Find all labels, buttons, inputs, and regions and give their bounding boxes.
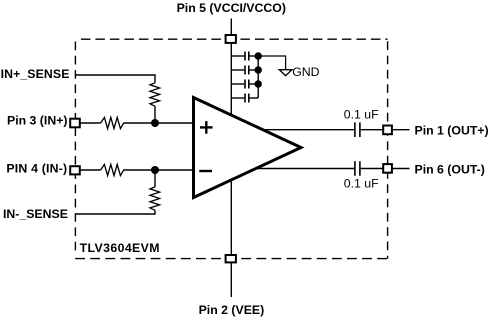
node bypass rail dot 1 [255,52,262,59]
label Pin 2 (VEE) [199,303,265,317]
wire rail to ground symbol [258,56,285,70]
resistor (IN- series, horizontal) [101,164,124,175]
label GND [292,65,319,79]
pin pad Pin 5 (top) [226,35,236,43]
label IN+_SENSE [1,67,70,81]
label Pin 6 (OUT-) [415,162,485,176]
svg-text:Pin 5 (VCCI/VCCO): Pin 5 (VCCI/VCCO) [177,1,286,15]
wire VEE from comparator bottom through pad to label [230,179,232,297]
node IN- junction dot [151,166,159,174]
pin pad Pin 4 (left) [70,166,80,174]
svg-text:IN+_SENSE: IN+_SENSE [1,67,70,81]
wire bypass ground rail [257,56,259,98]
svg-text:0.1 uF: 0.1 uF [344,108,379,122]
wire OUT- from comparator to coupling cap [250,168,354,170]
wire VCC stub from Pin5 label to pad [230,19,232,40]
resistor (IN- sense, vertical) [150,187,160,210]
svg-text:Pin 3 (IN+): Pin 3 (IN+) [7,114,67,128]
op-amp comparator TLV3604 [194,98,302,198]
wire Pin3 pad to series resistor [78,122,101,124]
value label 0.1 uF (OUT+) [344,108,379,122]
wire VCC supply from pad down to comparator top [230,39,232,116]
svg-text:PIN 4 (IN-): PIN 4 (IN-) [6,162,67,176]
wire Pin6 pad to label [391,168,410,170]
wire series resistor to comparator + input [123,122,196,124]
svg-text:0.1 uF: 0.1 uF [344,176,379,190]
node bypass rail dot 3 [255,80,262,87]
wire coupling cap to Pin1 pad [361,129,384,131]
capacitor bypass C3 [231,80,258,89]
capacitor bypass C2 [231,66,258,75]
pin pad Pin 1 (right) [383,126,392,135]
wire Pin1 pad to label [391,129,410,131]
node bypass rail dot 2 [255,66,262,73]
label IN-_SENSE [3,207,68,221]
wire IN- node down to sense resistor [154,170,156,187]
wire IN+_SENSE from left border to sense resistor [75,75,155,83]
ground [279,70,292,76]
node IN+ junction dot [151,119,159,127]
capacitor C-OUT+ 0.1 uF [355,122,360,137]
pin pad Pin 2 (bottom) [226,255,236,262]
svg-text:GND: GND [292,65,319,79]
wire IN-_SENSE from sense resistor to left border [75,210,155,214]
wire coupling cap to Pin6 pad [361,168,384,170]
capacitor C-OUT- 0.1 uF [355,161,360,176]
wire OUT+ from comparator to coupling cap [255,129,354,131]
svg-text:Pin 6 (OUT-): Pin 6 (OUT-) [415,162,485,176]
wire sense resistor to IN+ node [154,106,156,123]
label Pin 3 (IN+) [7,114,67,128]
capacitor bypass C4 [231,94,258,103]
label TLV3604EVM [80,241,160,255]
svg-text:Pin 2 (VEE): Pin 2 (VEE) [199,303,265,317]
wire Pin4 pad to series resistor [78,169,101,171]
svg-text:TLV3604EVM: TLV3604EVM [80,241,160,255]
pin pad Pin 3 (left) [70,119,80,128]
capacitor bypass C1 [231,52,258,61]
pin pad Pin 6 (right) [383,164,392,173]
resistor (IN+ sense, vertical) [150,83,160,106]
svg-text:IN-_SENSE: IN-_SENSE [3,207,68,221]
label Pin 1 (OUT+) [415,123,488,137]
svg-text:Pin 1 (OUT+): Pin 1 (OUT+) [415,123,488,137]
resistor (IN+ series, horizontal) [101,117,124,128]
value label 0.1 uF (OUT-) [344,176,379,190]
wire series resistor to comparator - input [123,169,196,171]
label PIN 4 (IN-) [6,162,67,176]
label Pin 5 (VCCI/VCCO) [177,1,286,15]
EVM boundary dashed box [75,39,387,258]
